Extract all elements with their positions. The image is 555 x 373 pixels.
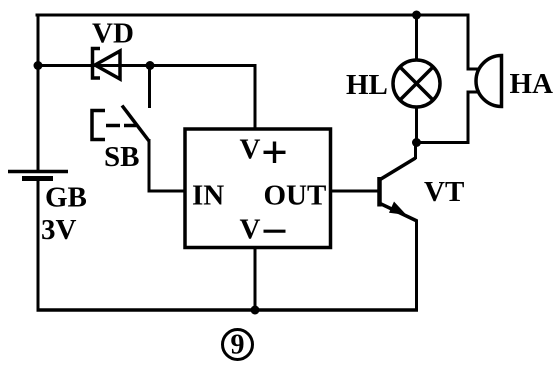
wire V- drop to bottom rail (254, 248, 257, 311)
pin label V- minus sign (264, 230, 286, 233)
wire top rail to lamp (415, 15, 418, 61)
svg-text:V: V (240, 133, 261, 165)
wire speaker branch bottom vertical (467, 92, 470, 144)
svg-text:SB: SB (104, 141, 139, 173)
diode VD cathode bar (93, 49, 101, 79)
switch SB linkage dash 2 (124, 124, 136, 128)
node top rail / lamp branch (412, 11, 421, 20)
wire speaker top terminal stub (467, 68, 481, 71)
node at left vertical / diode row (34, 61, 43, 70)
node at switch branch / diode row (146, 61, 155, 70)
wire top rail (36, 14, 469, 17)
lamp HL cross stroke 2 (400, 67, 433, 100)
svg-text:VT: VT (424, 176, 464, 208)
svg-text:IN: IN (192, 180, 224, 212)
battery GB long plate (8, 170, 68, 174)
svg-text:9: 9 (231, 330, 245, 361)
transistor VT base bar (377, 177, 382, 207)
svg-text:VD: VD (92, 18, 134, 50)
battery GB short plate (22, 176, 53, 181)
op-amp U1 box (185, 129, 331, 248)
wire speaker bottom terminal stub (467, 91, 481, 94)
wire bottom rail (37, 308, 419, 312)
diode VD triangle (95, 51, 120, 79)
svg-text:OUT: OUT (264, 180, 327, 212)
wire switch upper stub (148, 64, 151, 108)
svg-text:GB: GB (45, 182, 87, 214)
node V- at bottom rail (251, 306, 260, 315)
transistor VT collector stroke (380, 158, 416, 180)
wire left vertical upper (top rail to battery) (37, 14, 40, 172)
lamp HL circle (393, 60, 440, 107)
wire switch to IN horizontal (149, 190, 185, 193)
svg-text:V: V (240, 214, 261, 246)
wire diode row (left vertical to switch junction) (38, 64, 150, 67)
svg-text:3V: 3V (41, 214, 77, 246)
switch SB moving arm (122, 106, 149, 142)
switch SB linkage dash 1 (106, 124, 120, 128)
svg-text:HL: HL (346, 69, 388, 101)
sounder HA body (476, 56, 501, 107)
wire speaker branch bottom horizontal (417, 141, 470, 144)
wire speaker branch top vertical (467, 14, 470, 70)
wire collector vertical (414, 142, 417, 159)
lamp HL cross stroke 1 (400, 67, 433, 100)
wire lamp to collector node (415, 106, 418, 143)
svg-text:HA: HA (510, 68, 554, 100)
wire OUT to transistor base (331, 190, 380, 193)
wire V+ drop (254, 64, 257, 129)
node lamp / speaker / collector (412, 138, 421, 147)
wire diode row (switch junction to V+ drop) (150, 64, 257, 67)
transistor VT emitter arrow (389, 202, 407, 216)
wire switch to IN vertical (148, 139, 151, 193)
wire emitter vertical to bottom rail (415, 220, 418, 312)
switch SB actuator bracket (92, 111, 105, 140)
figure number circle (223, 330, 253, 360)
pin label V+ plus sign (264, 151, 286, 154)
wire left vertical lower (battery to bottom rail) (37, 178, 40, 312)
transistor VT emitter stroke (380, 204, 417, 222)
